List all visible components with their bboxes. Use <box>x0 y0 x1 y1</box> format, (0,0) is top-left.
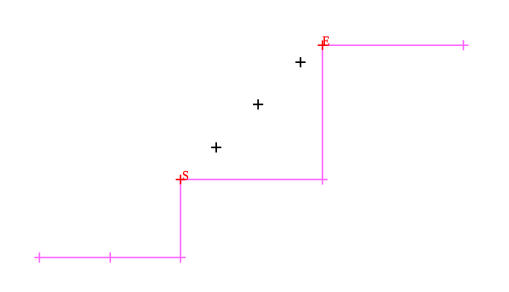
svg-text:S: S <box>182 168 189 183</box>
svg-text:E: E <box>322 34 329 49</box>
